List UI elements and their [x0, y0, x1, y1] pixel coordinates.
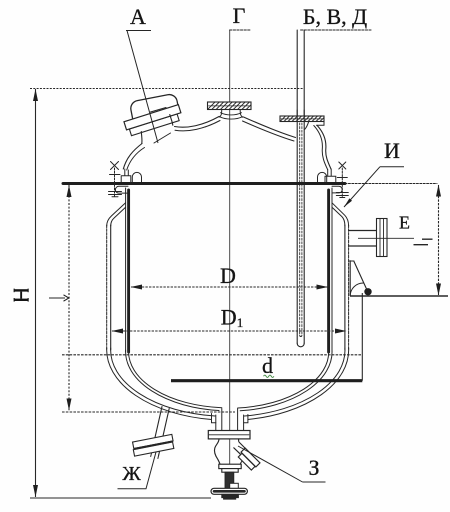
valve body — [214, 439, 220, 464]
leader И — [344, 167, 404, 207]
head rim lip left — [121, 169, 131, 182]
support bottom extension line y=296 — [350, 295, 448, 297]
label Б,В,Д corner — [301, 29, 371, 31]
bail loop — [129, 93, 179, 124]
jacket termination collar — [212, 414, 248, 423]
l arrows — [67, 185, 72, 197]
D arrows — [131, 285, 143, 290]
lower flange bar — [129, 114, 179, 136]
l leader arrowhead — [64, 295, 69, 301]
body flange lip left — [115, 186, 128, 193]
leader А — [126, 31, 158, 144]
svg-text:D: D — [220, 263, 236, 288]
green squiggle under d — [264, 375, 274, 377]
flange right step — [317, 122, 325, 125]
svg-text:Б, В, Д: Б, В, Д — [303, 4, 367, 29]
jacket bottom outer arc — [107, 348, 212, 420]
top center nozzle — [219, 110, 243, 117]
valve top flange — [208, 431, 250, 439]
dimension D1 line — [112, 330, 346, 332]
leader З — [238, 446, 326, 482]
handwheel — [211, 488, 247, 494]
neck sides — [141, 115, 173, 144]
vessel wall left (outer thin + inner thick) — [125, 188, 127, 352]
extension line y=355 — [62, 354, 362, 356]
svg-text:Е: Е — [399, 213, 410, 233]
top right nozzle flange — [280, 116, 324, 122]
vessel head curve right of centre nozzle — [244, 117, 296, 138]
vessel head curve right of dip-pipe nozzle (S-slope to rim) — [317, 126, 331, 170]
extension line bottom y=498 — [30, 497, 211, 499]
И leader arrowhead — [344, 198, 352, 207]
flange split line extension (thin dotted to right) — [345, 183, 437, 185]
label Г corner — [230, 29, 251, 31]
Е break symbol — [414, 239, 433, 245]
head rim lip right — [325, 169, 336, 183]
head flange tongue left — [132, 172, 141, 182]
flange left curl — [305, 122, 309, 130]
extension line top (H) y=88.5 — [30, 88, 304, 90]
dimension l vertical — [68, 185, 70, 411]
dimension d thick line — [171, 379, 362, 382]
jacket bottom inner arc — [111, 348, 215, 416]
vessel bottom outer arc — [126, 350, 219, 411]
svg-text:А: А — [130, 4, 146, 29]
gland bars — [219, 464, 241, 468]
dimension D line — [131, 286, 328, 288]
dip pipe Б,В,Д vertical (outer tube) — [297, 30, 304, 343]
label Н rotated (drawn as paths to avoid colour fringing) — [14, 289, 29, 302]
nozzle pipes — [216, 409, 244, 431]
dip pipe inner thermowell (dashed) with U bottom — [300, 123, 302, 335]
stem (dark) — [225, 472, 234, 488]
outlet flange pair (45deg) — [237, 448, 260, 471]
jacket wall right — [344, 225, 346, 350]
leader Ж — [118, 452, 157, 489]
flange split line (thick) — [63, 182, 345, 185]
svg-text:Г: Г — [233, 3, 246, 28]
arrowheads — [33, 89, 441, 497]
svg-text:З: З — [308, 455, 319, 480]
vessel wall right (inner thick + outer thin) — [327, 190, 330, 352]
svg-text:И: И — [384, 138, 400, 163]
H arrows — [33, 89, 38, 101]
support extension riser — [361, 293, 363, 381]
bottom discharge valve З — [208, 409, 260, 500]
clamp bolt right (И) — [336, 162, 348, 198]
vessel head outer curve left of nozzle A — [123, 144, 142, 170]
dip pipe passes through flange — [297, 110, 304, 121]
head flange tongue right — [318, 172, 327, 182]
right dimension vertical — [438, 185, 440, 295]
Е nozzle centerline — [358, 237, 414, 239]
weld dot — [364, 288, 371, 295]
dimension H vertical — [35, 89, 37, 497]
extension line y=412 — [62, 411, 235, 413]
jacket wall left — [106, 225, 108, 350]
vessel head curve between A and centre nozzle — [175, 117, 220, 128]
svg-text:d: d — [262, 353, 273, 378]
axis tick marks — [151, 108, 171, 144]
nozzle Ж (bottom left, on jacket) — [132, 407, 175, 459]
clamp bolt left — [109, 162, 122, 198]
center axis line (Г) — [229, 30, 231, 499]
jacket top closure left (conical) — [107, 203, 126, 226]
vessel bottom inner arc — [129, 350, 222, 408]
svg-text:Ж: Ж — [122, 463, 141, 485]
body flange lip right — [332, 186, 342, 193]
small l leader arrow — [49, 297, 65, 299]
right dim arrows — [436, 185, 441, 197]
jacket top closure right (conical) — [332, 203, 349, 226]
support bracket (right, on jacket) — [350, 261, 368, 296]
dip pipe outer U bottom — [297, 343, 304, 347]
nozzle A (angled manhole with bail) — [124, 93, 183, 143]
D1 arrows — [112, 329, 124, 334]
nozzle Е (side, on jacket) — [349, 231, 377, 247]
cover flange bar — [124, 105, 181, 130]
top center nozzle flange — [208, 102, 252, 110]
